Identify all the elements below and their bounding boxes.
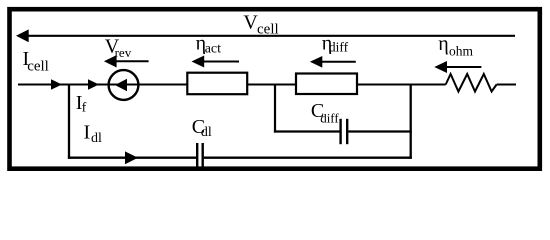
svg-text:I: I [84,122,91,144]
svg-text:ohm: ohm [449,43,474,58]
svg-text:cell: cell [27,59,49,75]
svg-text:dl: dl [91,131,102,146]
svg-text:rev: rev [115,45,132,60]
svg-text:η: η [438,33,448,55]
svg-text:dl: dl [201,125,212,140]
svg-text:f: f [82,101,87,116]
svg-text:cell: cell [257,22,279,38]
svg-text:diff: diff [329,39,349,54]
svg-text:diff: diff [320,110,339,125]
svg-text:act: act [205,42,221,57]
